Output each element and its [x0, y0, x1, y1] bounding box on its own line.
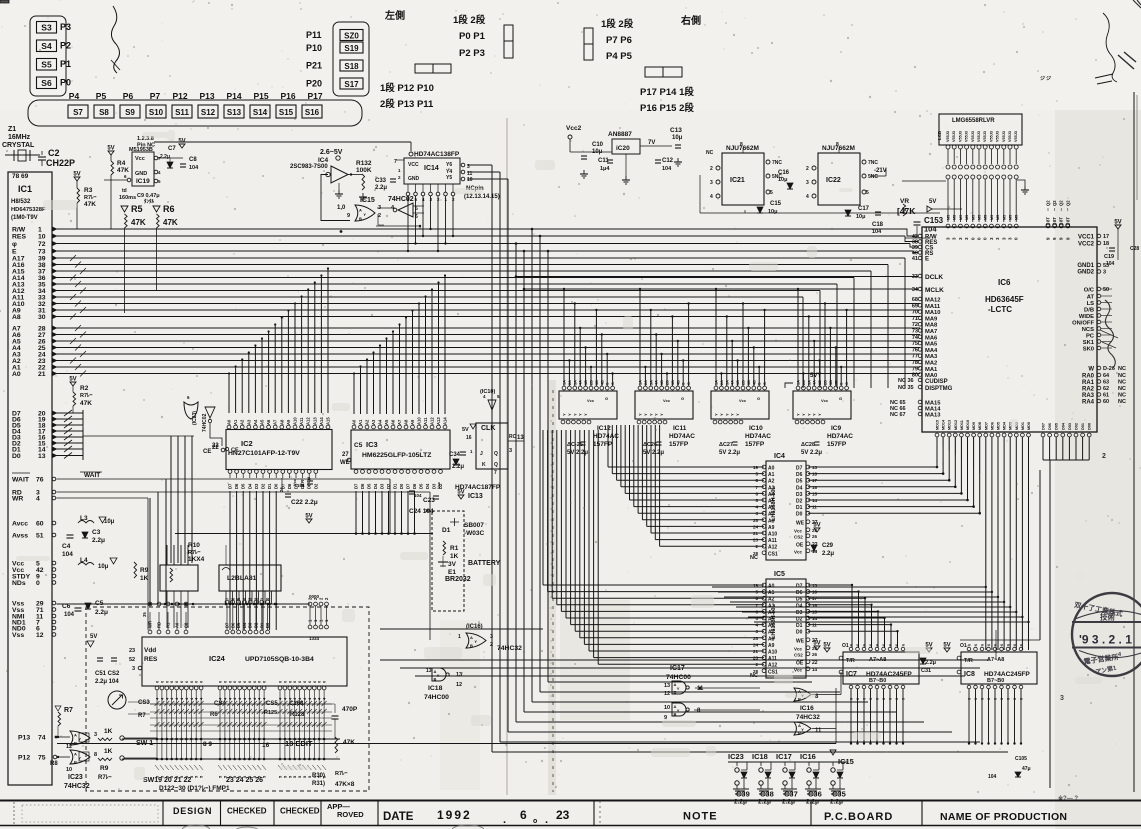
svg-text:D7: D7: [225, 622, 230, 628]
svg-text:P4 P5: P4 P5: [606, 51, 633, 62]
svg-text:2: 2: [378, 213, 381, 219]
svg-text:160ms: 160ms: [119, 195, 136, 201]
svg-text:IC11: IC11: [673, 425, 687, 432]
svg-text:6: 6: [1007, 644, 1011, 646]
svg-text:C23: C23: [423, 497, 435, 504]
svg-text:S6: S6: [41, 78, 52, 88]
svg-text:IC21: IC21: [730, 177, 745, 184]
svg-text:A10: A10: [768, 650, 777, 656]
svg-text:CRYSTAL: CRYSTAL: [2, 142, 35, 149]
svg-text:104: 104: [1106, 261, 1115, 267]
svg-text:Q: Q: [494, 451, 498, 457]
svg-text:D6: D6: [360, 483, 365, 489]
svg-text:50: 50: [1103, 287, 1109, 293]
svg-text:D4: D4: [796, 485, 803, 491]
svg-text:Y: Y: [730, 413, 735, 416]
svg-text:R/W: R/W: [12, 227, 26, 234]
svg-text:CUDISP: CUDISP: [925, 379, 948, 385]
svg-text:Y: Y: [638, 413, 643, 416]
svg-text:E1: E1: [448, 569, 456, 576]
svg-text:17: 17: [1103, 234, 1109, 240]
svg-text:MD0: MD0: [1027, 422, 1031, 430]
svg-text:S4: S4: [41, 41, 52, 51]
svg-text:D00: D00: [1088, 423, 1092, 430]
svg-text:MA10: MA10: [925, 310, 940, 316]
svg-text:S8: S8: [99, 108, 109, 117]
svg-text:VCC2: VCC2: [1078, 242, 1095, 248]
svg-text:C51 CS2: C51 CS2: [95, 671, 120, 677]
svg-text:A0: A0: [227, 419, 232, 425]
svg-text:M5: M5: [984, 215, 988, 220]
svg-text:C12: C12: [662, 158, 674, 164]
svg-text:73: 73: [912, 329, 918, 335]
svg-text:G: G: [605, 396, 608, 401]
svg-text:S19: S19: [344, 44, 359, 53]
svg-text:IC23: IC23: [68, 774, 83, 781]
svg-text:5: 5: [770, 190, 773, 196]
svg-text:34: 34: [912, 287, 919, 293]
svg-text:ΔC28: ΔC28: [801, 442, 815, 448]
svg-text:A11: A11: [768, 538, 777, 544]
svg-text:B: B: [470, 643, 473, 648]
svg-text:13: 13: [426, 668, 432, 674]
svg-text:D03: D03: [1068, 423, 1072, 430]
svg-text:5V: 5V: [929, 199, 936, 205]
svg-text:IC4: IC4: [318, 157, 329, 164]
svg-text:S9: S9: [125, 108, 135, 117]
svg-text:6: 6: [856, 644, 860, 646]
svg-text:35: 35: [142, 612, 147, 617]
svg-text:P16 P15 2段: P16 P15 2段: [640, 102, 694, 114]
svg-text:MA7: MA7: [925, 329, 937, 335]
svg-text:MD7: MD7: [984, 422, 988, 430]
svg-text:26: 26: [812, 652, 818, 657]
svg-text:6: 6: [1013, 698, 1017, 700]
svg-text:73: 73: [38, 249, 46, 256]
svg-text:A12: A12: [768, 663, 777, 669]
svg-text:Vcc: Vcc: [739, 398, 747, 403]
svg-text:D-26: D-26: [1103, 366, 1115, 372]
svg-text:D0: D0: [265, 622, 270, 628]
svg-text:AN8887: AN8887: [608, 131, 632, 138]
svg-text:Y6: Y6: [446, 162, 452, 168]
svg-text:R5: R5: [131, 204, 143, 214]
svg-text:DISPTMG: DISPTMG: [925, 386, 953, 392]
svg-text:5V: 5V: [305, 514, 312, 520]
svg-text:RA2: RA2: [1082, 387, 1095, 393]
svg-text:.: .: [503, 814, 506, 826]
svg-text:P2 P3: P2 P3: [459, 48, 485, 59]
svg-text:R8: R8: [50, 761, 58, 767]
svg-text:CS5: CS5: [266, 701, 278, 707]
svg-text:NC: NC: [750, 555, 758, 561]
svg-text:6: 6: [987, 698, 991, 700]
svg-text:3V: 3V: [448, 561, 457, 568]
svg-text:16MHz: 16MHz: [8, 134, 31, 141]
svg-text:2.6~5V: 2.6~5V: [320, 149, 343, 156]
svg-text:HD74AC245FP: HD74AC245FP: [866, 671, 912, 678]
svg-text:A15: A15: [326, 417, 331, 425]
svg-text:IC22: IC22: [826, 177, 841, 184]
svg-text:ROVED: ROVED: [337, 810, 364, 819]
svg-text:S14: S14: [253, 108, 268, 117]
svg-text:P2: P2: [60, 41, 71, 51]
svg-text:P7 P6: P7 P6: [606, 35, 632, 46]
svg-text:A4: A4: [768, 610, 775, 616]
svg-text:IC5: IC5: [774, 571, 785, 578]
svg-text:A9: A9: [768, 643, 775, 649]
svg-text:O/C: O/C: [1084, 288, 1095, 294]
svg-text:HD63645F: HD63645F: [985, 295, 1024, 304]
svg-text:MD10: MD10: [966, 420, 970, 430]
svg-text:P11: P11: [306, 30, 322, 40]
svg-text:104: 104: [988, 774, 997, 780]
svg-text:P17: P17: [307, 91, 322, 101]
svg-text:P12: P12: [18, 755, 30, 762]
svg-text:5V: 5V: [943, 643, 950, 649]
svg-text:Y: Y: [735, 413, 740, 416]
svg-text:100K: 100K: [356, 167, 372, 174]
svg-text:NC 67: NC 67: [890, 412, 906, 418]
svg-text:Y: Y: [572, 413, 577, 416]
svg-text:Y: Y: [562, 413, 567, 416]
svg-text:NC 35: NC 35: [898, 385, 914, 391]
svg-text:M5: M5: [1009, 215, 1013, 220]
svg-text:C5: C5: [354, 442, 363, 449]
svg-text:ﾀﾝﾀﾙ: ﾀﾝﾀﾙ: [144, 198, 155, 205]
svg-text:[47K: [47K: [897, 206, 916, 216]
svg-text:30: 30: [38, 314, 46, 321]
svg-text:2段 P13 P11: 2段 P13 P11: [380, 98, 434, 110]
svg-text:6: 6: [1020, 698, 1024, 700]
svg-text:A6: A6: [391, 419, 396, 425]
svg-text:78 69: 78 69: [12, 173, 29, 180]
svg-text:NAME OF PRODUCTION: NAME OF PRODUCTION: [940, 811, 1067, 823]
svg-text:V55J3: V55J3: [996, 131, 1000, 142]
svg-text:47K: 47K: [117, 167, 129, 174]
svg-text:MCLK: MCLK: [925, 287, 944, 294]
svg-text:5V: 5V: [107, 146, 114, 152]
svg-text:D0: D0: [796, 512, 803, 518]
svg-text:A9: A9: [410, 419, 415, 425]
svg-text:6: 6: [895, 644, 899, 646]
svg-text:D6: D6: [796, 590, 803, 596]
svg-text:D0: D0: [796, 630, 803, 636]
svg-text:Y: Y: [801, 413, 806, 416]
svg-text:GND: GND: [408, 176, 420, 182]
svg-text:Vcc: Vcc: [587, 398, 595, 403]
svg-text:IC4: IC4: [774, 453, 785, 460]
svg-text:Vcc: Vcc: [794, 667, 803, 672]
svg-text:6: 6: [1000, 698, 1004, 700]
svg-text:IC19: IC19: [136, 178, 150, 185]
svg-text:5V: 5V: [73, 172, 80, 178]
svg-text:Y: Y: [724, 413, 729, 416]
svg-text:SK1: SK1: [1083, 340, 1095, 346]
svg-text:R4: R4: [117, 160, 126, 167]
svg-text:-21V: -21V: [874, 168, 887, 174]
svg-text:10μ: 10μ: [104, 519, 115, 525]
svg-text:R128: R128: [290, 712, 305, 718]
svg-text:12: 12: [456, 682, 462, 688]
svg-text:T/R: T/R: [964, 658, 973, 664]
svg-text:M5: M5: [1002, 215, 1006, 220]
svg-text:IC16: IC16: [800, 752, 816, 761]
svg-text:6: 6: [895, 698, 899, 700]
svg-text:MD13: MD13: [948, 420, 952, 430]
svg-text:6: 6: [850, 644, 854, 646]
svg-text:47K×8: 47K×8: [335, 781, 355, 788]
svg-text:Y: Y: [363, 212, 366, 217]
svg-text:10μ: 10μ: [768, 209, 777, 215]
svg-text:Avss: Avss: [12, 533, 28, 540]
svg-text:13: 13: [38, 453, 46, 460]
svg-text:D1: D1: [796, 623, 803, 629]
svg-text:Vcc: Vcc: [821, 398, 829, 403]
svg-text:R125: R125: [264, 710, 277, 716]
svg-text:A12: A12: [306, 417, 311, 425]
svg-text:Y: Y: [812, 413, 817, 416]
svg-text:Vcc2: Vcc2: [566, 125, 582, 132]
svg-text:0: 0: [36, 580, 40, 587]
svg-text:8T: 8T: [1052, 217, 1057, 222]
svg-text:MA4: MA4: [925, 348, 938, 354]
svg-text:1K: 1K: [140, 575, 149, 582]
svg-text:RD: RD: [157, 622, 162, 628]
svg-text:A12: A12: [768, 545, 777, 551]
svg-text:NC: NC: [750, 673, 758, 679]
svg-text:6: 6: [968, 644, 972, 646]
svg-text:5V: 5V: [457, 490, 464, 496]
svg-text:12: 12: [36, 632, 44, 639]
svg-text:6: 6: [974, 644, 978, 646]
svg-text:P14: P14: [226, 91, 241, 101]
svg-text:6: 6: [981, 698, 985, 700]
svg-text:A4: A4: [768, 492, 775, 498]
svg-text:IC6: IC6: [998, 278, 1011, 287]
svg-text:D2: D2: [796, 499, 803, 505]
svg-text:26: 26: [812, 534, 818, 539]
svg-text:C2: C2: [48, 148, 60, 158]
svg-text:Y: Y: [806, 413, 811, 416]
svg-text:C35: C35: [832, 790, 846, 799]
svg-text:D4: D4: [373, 483, 378, 489]
svg-text:6: 6: [1007, 698, 1011, 700]
svg-text:D5: D5: [796, 479, 803, 485]
svg-text:7: 7: [494, 470, 497, 476]
svg-text:Y: Y: [437, 673, 440, 678]
svg-text:104: 104: [189, 165, 199, 171]
svg-text:NDs: NDs: [12, 580, 26, 587]
svg-text:D6: D6: [412, 483, 417, 489]
svg-text:D07: D07: [1042, 423, 1046, 430]
svg-text:IC12: IC12: [597, 425, 611, 432]
svg-text:CE: CE: [203, 449, 211, 455]
svg-text:S10: S10: [149, 108, 164, 117]
svg-text:A10: A10: [768, 532, 777, 538]
svg-text:74HC32: 74HC32: [497, 645, 522, 652]
svg-text:D3: D3: [254, 483, 259, 489]
svg-text:61: 61: [1103, 393, 1109, 399]
svg-text:A11: A11: [768, 656, 777, 662]
svg-text:NC: NC: [706, 150, 714, 156]
svg-text:(IC10): (IC10): [480, 389, 495, 395]
svg-text:ΔC27: ΔC27: [719, 442, 733, 448]
svg-text:6: 6: [1000, 644, 1004, 646]
svg-text:D3: D3: [796, 610, 803, 616]
svg-text:14: 14: [812, 667, 818, 672]
svg-text:Y: Y: [677, 708, 680, 713]
svg-text:79: 79: [912, 366, 918, 372]
svg-text:HD74AC: HD74AC: [745, 433, 771, 440]
svg-text:M5: M5: [990, 215, 994, 220]
svg-text:70: 70: [912, 310, 918, 316]
svg-text:7NC: 7NC: [868, 160, 878, 166]
svg-text:R7ﾚｰ: R7ﾚｰ: [188, 549, 201, 556]
svg-text:WAIT: WAIT: [84, 472, 100, 479]
svg-text:C34: C34: [449, 452, 461, 458]
svg-text:1,0: 1,0: [337, 205, 346, 211]
svg-text:5V: 5V: [823, 643, 830, 649]
svg-text:A8: A8: [768, 636, 775, 642]
svg-text:IC15: IC15: [838, 757, 854, 766]
svg-text:A: A: [74, 752, 77, 757]
svg-text:6: 6: [856, 698, 860, 700]
svg-text:47K: 47K: [80, 400, 92, 407]
svg-text:M5: M5: [971, 215, 975, 220]
svg-text:10μ: 10μ: [672, 135, 683, 141]
svg-text:NC: NC: [1118, 373, 1126, 379]
svg-text:74HC02: 74HC02: [202, 413, 208, 432]
svg-text:P12: P12: [172, 91, 187, 101]
svg-text:71: 71: [912, 316, 918, 322]
svg-text:A: A: [359, 207, 362, 212]
svg-text:74HC00: 74HC00: [666, 674, 691, 681]
svg-text:A1: A1: [358, 419, 363, 425]
svg-text:A: A: [470, 635, 473, 640]
svg-text:A0: A0: [12, 371, 21, 378]
svg-text:4: 4: [710, 194, 713, 200]
svg-text:10μ: 10μ: [856, 214, 865, 220]
svg-text:DCLK: DCLK: [925, 274, 943, 281]
svg-text:CH22P: CH22P: [46, 158, 75, 168]
svg-text:157FP: 157FP: [827, 441, 847, 448]
svg-text:IC24: IC24: [209, 654, 226, 663]
svg-text:GND1: GND1: [1077, 263, 1094, 269]
svg-text:UPD7105SQB-10-3B4: UPD7105SQB-10-3B4: [245, 656, 314, 663]
svg-text:Y: Y: [578, 413, 583, 416]
svg-text:MD14: MD14: [942, 419, 946, 430]
svg-text:C168: C168: [289, 701, 304, 707]
svg-text:2.2μ 104: 2.2μ 104: [95, 679, 119, 685]
svg-text:22: 22: [212, 445, 219, 451]
svg-text:D7: D7: [406, 483, 411, 489]
svg-text:A5: A5: [260, 419, 265, 425]
svg-text:P5: P5: [96, 91, 107, 101]
svg-text:R31): R31): [312, 781, 325, 787]
svg-text:D7: D7: [796, 466, 803, 472]
svg-text:R10: R10: [188, 542, 200, 549]
svg-text:75: 75: [38, 755, 46, 762]
svg-text:68: 68: [912, 297, 918, 303]
svg-text:1KX4: 1KX4: [188, 556, 205, 563]
svg-text:6: 6: [889, 644, 893, 646]
svg-text:D0: D0: [12, 453, 21, 460]
svg-text:A6: A6: [768, 505, 775, 511]
svg-text:12: 12: [66, 744, 72, 750]
svg-text:63: 63: [1103, 380, 1109, 386]
svg-text:RC: RC: [509, 434, 517, 440]
svg-text:A0: A0: [768, 466, 775, 472]
svg-text:6: 6: [876, 698, 880, 700]
svg-text:SB007: SB007: [464, 522, 484, 529]
svg-text:Y: Y: [719, 413, 724, 416]
svg-text:V55J3: V55J3: [958, 131, 962, 142]
svg-text:72: 72: [912, 322, 918, 328]
svg-text:R9: R9: [100, 765, 109, 772]
svg-text:P17 P14 1段: P17 P14 1段: [640, 86, 694, 98]
svg-text:A7: A7: [397, 419, 402, 425]
svg-text:60: 60: [36, 521, 44, 528]
svg-text:A1: A1: [768, 472, 775, 478]
svg-text:VR: VR: [900, 198, 909, 205]
svg-text:HD74AC: HD74AC: [593, 433, 619, 440]
svg-text:6: 6: [882, 698, 886, 700]
svg-text:A7: A7: [273, 419, 278, 425]
svg-text:C38: C38: [760, 790, 774, 799]
svg-text:MD4: MD4: [1003, 421, 1007, 430]
svg-text:NCS: NCS: [1082, 327, 1094, 333]
svg-text:MD1: MD1: [1021, 422, 1025, 430]
svg-text:O1: O1: [960, 643, 967, 649]
svg-text:IC13: IC13: [468, 493, 483, 500]
svg-text:IC18: IC18: [752, 752, 768, 761]
svg-text:10μ: 10μ: [592, 149, 603, 155]
svg-text:A2: A2: [365, 419, 370, 425]
svg-text:23: 23: [556, 808, 570, 822]
svg-text:157FP: 157FP: [745, 441, 765, 448]
svg-text:8: 8: [94, 752, 97, 758]
svg-text:VCC: VCC: [408, 162, 419, 168]
svg-text:5VY: 5VY: [810, 373, 821, 379]
svg-text:5V 2.2μ: 5V 2.2μ: [719, 450, 740, 456]
svg-text:1段 2段: 1段 2段: [453, 14, 486, 26]
svg-text:E: E: [925, 257, 929, 263]
svg-text:LMG6558RLVR: LMG6558RLVR: [952, 118, 995, 124]
svg-text:1μ4: 1μ4: [600, 166, 610, 172]
svg-text:HD74AC: HD74AC: [827, 433, 853, 440]
svg-text:10: 10: [467, 177, 473, 183]
svg-text:D3: D3: [248, 622, 253, 628]
svg-text:V55J3: V55J3: [965, 131, 969, 142]
svg-text:1段 P12 P10: 1段 P12 P10: [380, 82, 434, 94]
svg-text:R6: R6: [163, 204, 175, 214]
svg-text:S18: S18: [344, 62, 359, 71]
svg-text:74HC00: 74HC00: [424, 694, 449, 701]
svg-text:8T: 8T: [1059, 217, 1064, 222]
svg-text:CHECKED: CHECKED: [280, 807, 320, 816]
svg-text:D04: D04: [1061, 422, 1065, 430]
svg-text:51: 51: [36, 533, 44, 540]
svg-text:IC9: IC9: [831, 425, 842, 432]
svg-text:Avcc: Avcc: [12, 521, 28, 528]
svg-text:-W03C: -W03C: [464, 530, 485, 537]
svg-text:A2: A2: [768, 479, 775, 485]
svg-text:6: 6: [520, 808, 527, 822]
svg-text:R7ﾚｰ: R7ﾚｰ: [84, 194, 97, 201]
svg-text:8T: 8T: [1046, 217, 1051, 222]
svg-text:P3: P3: [60, 22, 71, 32]
